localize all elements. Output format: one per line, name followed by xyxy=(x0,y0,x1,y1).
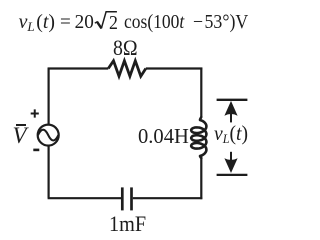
wire left bottom segment xyxy=(47,145,49,198)
wire top segment right of resistor xyxy=(146,67,203,69)
label 8ohm xyxy=(113,37,138,60)
voltage marker top bar xyxy=(217,99,248,101)
wire right bottom segment xyxy=(200,157,202,200)
title radical sqrt2 drawn xyxy=(0,0,263,40)
inductor L 0.04H coil loops xyxy=(191,117,206,159)
resistor R 8ohm zigzag xyxy=(108,61,146,76)
title equation vL(t)=20sqrt2 cos(100t-53deg)V xyxy=(19,13,55,33)
voltage marker up arrow shaft xyxy=(230,111,232,122)
voltage marker down arrow head xyxy=(224,158,237,173)
label Vbar phasor source V xyxy=(13,124,27,147)
voltage marker down arrow shaft xyxy=(230,152,232,162)
capacitor C 1mF right plate xyxy=(130,187,133,210)
minus sign near source xyxy=(33,149,39,152)
wire right top segment xyxy=(200,68,202,118)
AC source sine wave xyxy=(38,130,58,141)
wire top segment left of resistor xyxy=(48,67,109,69)
plus sign near source xyxy=(31,109,39,117)
wire bottom segment left of capacitor xyxy=(48,197,121,199)
label 1mF xyxy=(109,213,146,235)
label vL(t) right of inductor xyxy=(214,123,248,145)
label 0.04H xyxy=(138,126,189,147)
wire bottom segment right of capacitor xyxy=(133,197,203,199)
label Vbar phasor source overbar xyxy=(16,124,26,126)
voltage marker up arrow head xyxy=(224,101,237,116)
capacitor C 1mF left plate xyxy=(121,187,124,210)
voltage marker bottom bar xyxy=(217,174,248,176)
AC source circle xyxy=(38,125,59,146)
wire left top segment xyxy=(47,68,49,125)
